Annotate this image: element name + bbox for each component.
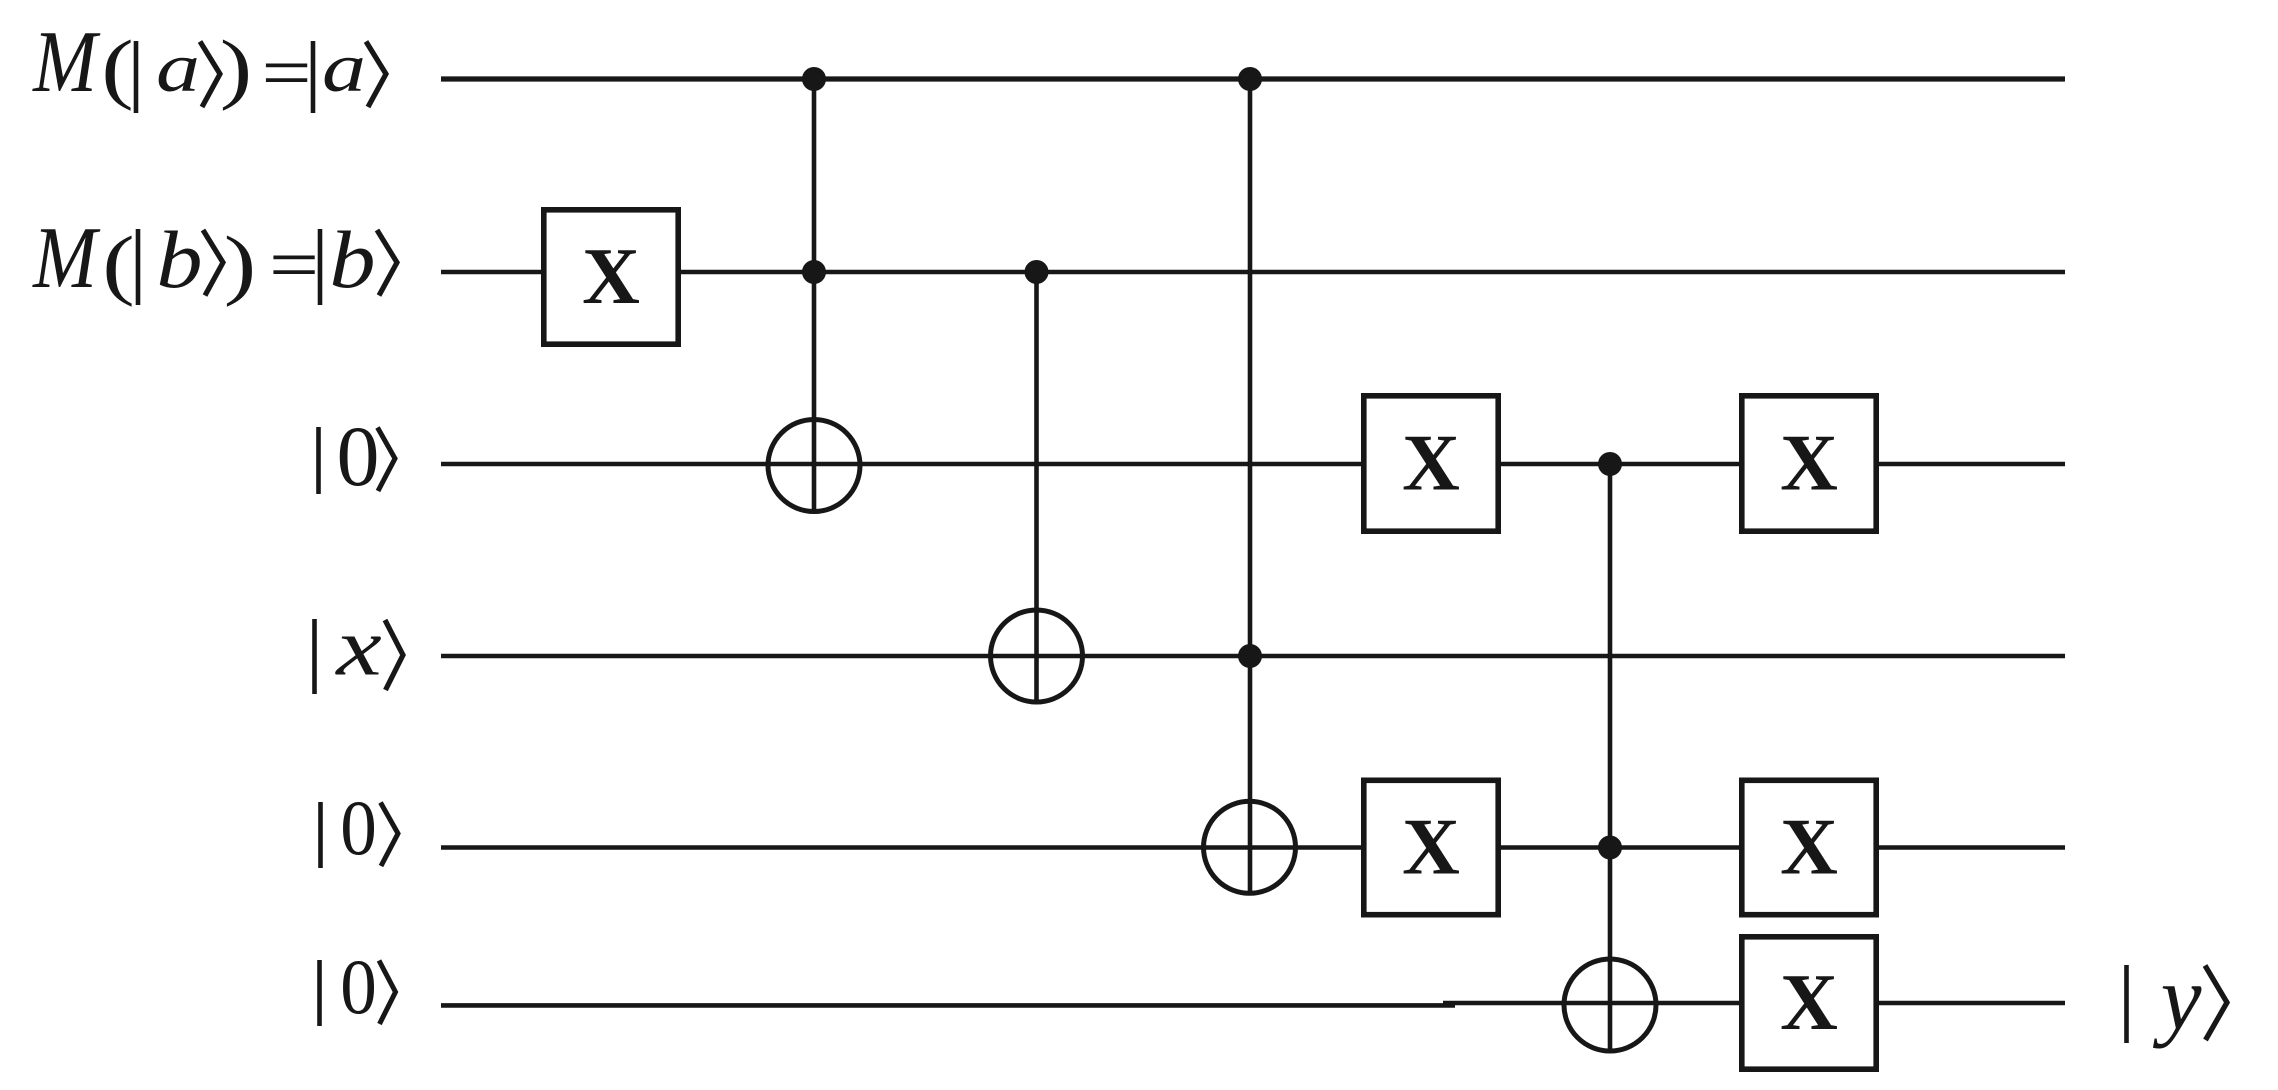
svg-text:=: =: [261, 32, 311, 114]
svg-text:x: x: [334, 601, 382, 693]
wire q3 (|x>): [441, 654, 2065, 659]
svg-text:b: b: [329, 214, 375, 305]
svg-text:0: 0: [340, 785, 377, 872]
wire q5 (ancilla 0, output |y>): [441, 1003, 2065, 1005]
wire q0 (|a>): [441, 76, 2065, 81]
X gate G1 on q1: [544, 210, 678, 344]
svg-text:X: X: [1402, 804, 1460, 892]
X gate G2 on q2: [1364, 396, 1498, 531]
svg-text:(: (: [101, 25, 133, 112]
svg-text:X: X: [1780, 804, 1838, 892]
label |0> on q5: [320, 944, 396, 1031]
svg-text:b: b: [156, 214, 202, 305]
svg-text:0: 0: [340, 944, 377, 1031]
label M(|b>)=|b> on q1: [32, 209, 397, 308]
XOR target C1 on q3: [991, 610, 1083, 702]
wire q1 (|b>): [441, 270, 2065, 275]
control dot T1 on q1: [802, 260, 826, 284]
svg-text:): ): [224, 221, 256, 308]
vertical connector Toffoli T1 (q0,q1 -> q2): [812, 79, 817, 513]
XOR target T3 on q5: [1564, 959, 1656, 1051]
control dot T2 on q0: [1238, 67, 1262, 91]
XOR target T2 on q4: [1204, 801, 1296, 893]
svg-text:(: (: [102, 221, 134, 308]
svg-text:y: y: [2153, 947, 2202, 1049]
vertical connector Toffoli T3 (q2,q4 -> q5): [1608, 464, 1613, 1053]
XOR target T1 on q2: [768, 420, 860, 512]
svg-text:M: M: [32, 13, 101, 110]
X gate G3 on q2: [1742, 396, 1876, 531]
X gate G5 on q4: [1742, 780, 1876, 914]
svg-text:=: =: [269, 224, 319, 306]
control dot T2 on q3: [1238, 644, 1262, 668]
svg-text:X: X: [582, 233, 640, 321]
vertical connector CNOT C1 (q1 -> q3): [1034, 272, 1039, 704]
control dot T3 on q4: [1598, 836, 1622, 860]
wire q4 (ancilla 0): [441, 845, 2065, 850]
svg-text:X: X: [1780, 959, 1838, 1047]
label |0> on q2: [319, 408, 396, 504]
control dot C1 on q1: [1025, 260, 1049, 284]
control dot T3 on q2: [1598, 452, 1622, 476]
control dot T1 on q0: [802, 67, 826, 91]
svg-text:): ): [220, 25, 252, 112]
label |0> on q4: [321, 785, 399, 872]
label |y> output on q5: [2127, 947, 2228, 1049]
label M(|a>)=|a> on q0: [32, 13, 386, 114]
svg-text:a: a: [322, 30, 366, 107]
svg-text:M: M: [32, 209, 101, 306]
svg-text:X: X: [1402, 420, 1460, 508]
X gate G6 on q5: [1742, 937, 1876, 1069]
X gate G4 on q4: [1364, 780, 1498, 914]
svg-text:0: 0: [337, 408, 380, 504]
wire q2 (ancilla 0): [441, 462, 2065, 467]
label |x> on q3: [315, 601, 404, 694]
svg-text:X: X: [1780, 420, 1838, 508]
vertical connector Toffoli T2 (q0,q3 -> q4): [1248, 79, 1253, 896]
svg-text:a: a: [156, 30, 200, 107]
